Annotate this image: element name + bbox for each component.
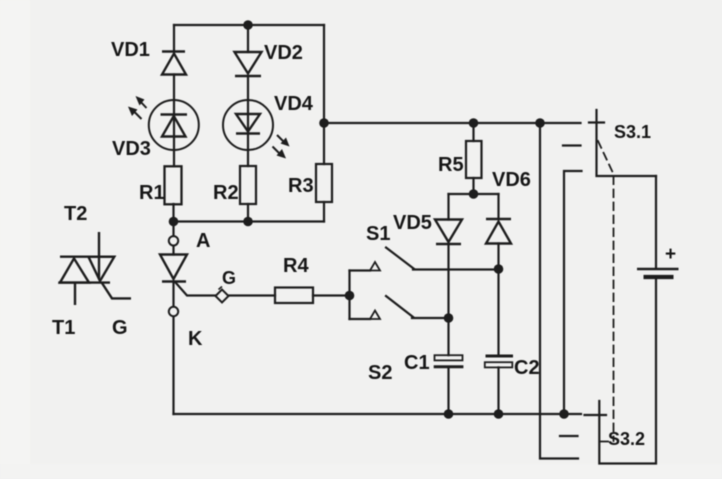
wire R5 bottom: [472, 178, 474, 194]
svg-text:C2: C2: [514, 357, 540, 379]
switch S1 contact triangle: [370, 262, 380, 271]
node dot R1 bottom: [169, 217, 179, 227]
dashed mechanical link S3: [598, 141, 614, 441]
switch S3.2 tick: [585, 414, 607, 416]
switch S3.1 blade: [597, 110, 657, 176]
diode VD2: [235, 52, 262, 76]
node dot C1 bottom: [444, 409, 454, 419]
wire A to thyristor: [172, 245, 174, 255]
wire R5 top: [472, 123, 474, 141]
wire R4 to switch junction: [313, 294, 350, 296]
triac symbol left: [58, 232, 131, 305]
switch S2 contact triangle: [370, 311, 380, 320]
node dot C2 bottom: [494, 409, 504, 419]
svg-text:G: G: [222, 268, 236, 288]
wire S3.1 lower contact down to bottom: [564, 171, 582, 414]
resistor R2: [240, 166, 256, 204]
svg-text:VD6: VD6: [492, 169, 531, 191]
svg-text:VD4: VD4: [274, 93, 314, 115]
node dot R2 bottom: [243, 217, 253, 227]
wire diamond to R4: [229, 294, 276, 296]
wire top rail: [174, 24, 324, 26]
svg-text:R1: R1: [139, 182, 165, 204]
wire S2 stub: [350, 318, 371, 320]
wire C2 bottom: [497, 367, 499, 414]
wire S1 to VD6 line: [413, 268, 499, 270]
svg-text:VD3: VD3: [112, 138, 151, 160]
wire thyristor to K: [172, 282, 174, 308]
capacitor C1: [434, 355, 464, 367]
wire VD5 top: [447, 194, 449, 220]
wire battery top: [655, 176, 657, 268]
wire VD6 to C2: [497, 244, 499, 355]
node dot S1 VD6: [494, 264, 504, 274]
wire bottom rail of resistors: [174, 220, 325, 222]
wire VD6 top: [497, 194, 499, 219]
wire R3 branch: [323, 25, 325, 164]
wire switch bracket: [348, 271, 350, 320]
resistor R5: [466, 141, 482, 178]
svg-text:T1: T1: [52, 317, 75, 339]
svg-text:S3.1: S3.1: [614, 122, 651, 142]
wire R1 bottom: [172, 204, 174, 222]
diode VD6: [486, 219, 511, 244]
wire S2 to VD5 line: [412, 317, 449, 319]
node dot bottom right: [559, 409, 569, 419]
node dot R5 bottom: [469, 189, 479, 199]
node dot top rail: [243, 20, 253, 30]
wire VD5 to C1: [447, 244, 449, 355]
wire top right rail: [324, 122, 581, 124]
node dot R3 branch: [319, 118, 329, 128]
svg-text:G: G: [112, 317, 128, 339]
wire battery bottom and S3.2 blade: [599, 279, 656, 464]
dashed link end mark: [601, 441, 609, 443]
wire right vertical to S3.2 lower contact: [540, 123, 578, 459]
svg-text:VD5: VD5: [393, 212, 432, 234]
capacitor C2: [485, 356, 513, 367]
resistor R3: [316, 164, 332, 202]
wire gate diagonal: [176, 283, 216, 296]
switch S3.1 tick: [589, 121, 604, 123]
switch S3.1 contact dash: [563, 144, 581, 146]
svg-text:VD2: VD2: [264, 42, 303, 64]
wire R3 bottom: [323, 202, 325, 222]
LED VD3: [128, 96, 199, 150]
node dot S2 VD5: [444, 313, 454, 323]
resistor R4: [275, 288, 313, 304]
terminal A: [169, 236, 178, 245]
wire C1 bottom: [447, 368, 449, 414]
diode VD5: [435, 220, 462, 245]
svg-text:+: +: [665, 244, 676, 265]
svg-text:R2: R2: [213, 182, 239, 204]
svg-text:K: K: [188, 328, 203, 350]
svg-text:R3: R3: [288, 175, 314, 197]
wire diode T split: [449, 193, 499, 195]
svg-text:A: A: [196, 230, 210, 252]
svg-text:T2: T2: [64, 203, 87, 225]
wire A stub: [172, 222, 174, 237]
svg-text:R5: R5: [438, 154, 464, 176]
thyristor VS1: [160, 255, 187, 282]
node dot right rail top: [535, 118, 545, 128]
svg-text:R4: R4: [283, 255, 309, 277]
LED VD4: [223, 100, 290, 159]
svg-text:S3.2: S3.2: [608, 429, 645, 449]
wire VD1 to VD3 to R1: [173, 75, 175, 167]
wire S1 blade: [386, 248, 414, 269]
wire S2 blade: [386, 296, 413, 317]
terminal K: [169, 307, 178, 316]
wire K down: [172, 316, 174, 414]
diode VD1: [162, 52, 186, 75]
wire R2 bottom: [247, 204, 249, 222]
wire VD1 top: [173, 25, 175, 51]
wire bottom long: [174, 413, 582, 415]
terminal G diamond: [216, 290, 229, 303]
wire S1 stub: [350, 269, 371, 271]
tick near G label: [219, 287, 223, 290]
svg-text:C1: C1: [404, 352, 430, 374]
svg-text:S1: S1: [366, 223, 390, 245]
resistor R1: [165, 166, 182, 204]
battery GB1: [637, 269, 679, 277]
node dot R5 top: [469, 118, 479, 128]
switch S3.2 contact dash: [560, 435, 578, 437]
node dot switch junction: [345, 291, 355, 301]
svg-text:S2: S2: [368, 362, 392, 384]
wire VD2 to VD4 to R2: [247, 76, 249, 166]
wire VD2 top: [247, 25, 249, 52]
svg-text:VD1: VD1: [111, 39, 150, 61]
